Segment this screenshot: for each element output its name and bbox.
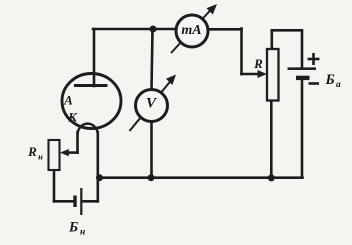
wire corner down to wiper <box>240 29 243 75</box>
junction node cathode bottom <box>96 174 103 181</box>
svg-text:н: н <box>38 152 43 162</box>
potentiometer R body <box>267 49 279 101</box>
svg-text:А: А <box>63 93 73 108</box>
wire wiper arrow line of Rn <box>68 151 78 154</box>
wire mA to corner <box>208 28 242 31</box>
junction node R bottom <box>268 174 275 181</box>
wire Bn right horizontal <box>83 200 98 203</box>
wire anode lead vertical <box>93 29 96 86</box>
wire R bottom lead <box>270 101 273 178</box>
milliammeter mA arrowhead <box>207 4 218 15</box>
wire battery Ba bottom lead <box>301 80 304 178</box>
svg-text:mA: mA <box>181 23 201 38</box>
vacuum tube anode plate bar <box>74 84 108 87</box>
voltmeter V body circle <box>136 90 168 122</box>
wire voltmeter branch upper <box>152 29 153 91</box>
vacuum tube envelope circle <box>62 74 121 129</box>
battery Bn positive long plate <box>80 188 82 215</box>
wire wiper arrow line of R <box>242 73 260 76</box>
svg-text:н: н <box>80 228 85 238</box>
milliammeter mA body circle <box>176 15 208 47</box>
wire connector R top to battery top <box>272 30 302 67</box>
battery Ba negative short plate <box>296 76 310 80</box>
rheostat Rn wiper arrowhead <box>60 149 69 156</box>
svg-text:R: R <box>27 144 37 159</box>
battery Ba positive long plate <box>288 67 317 70</box>
wire Bn left horizontal <box>54 200 74 203</box>
voltmeter V arrow shaft <box>130 81 172 132</box>
svg-text:R: R <box>253 56 263 71</box>
rheostat Rn body <box>49 140 60 170</box>
wire top horizontal to mA <box>93 28 177 31</box>
battery Bn negative short plate <box>73 196 76 208</box>
vacuum tube cathode heater arc <box>78 124 98 134</box>
svg-text:К: К <box>67 110 78 125</box>
svg-text:Б: Б <box>325 72 335 88</box>
junction node voltmeter bottom <box>148 174 155 181</box>
wire tube left heater leg <box>76 132 79 153</box>
potentiometer R wiper arrowhead <box>258 70 267 78</box>
wire bottom horizontal <box>99 176 303 179</box>
milliammeter mA arrow shaft <box>171 9 212 54</box>
svg-text:Б: Б <box>68 220 78 236</box>
wire Rn bottom lead <box>53 170 56 201</box>
voltmeter V arrowhead <box>166 75 176 86</box>
wire tube right heater leg down to Bn <box>97 132 100 201</box>
battery Ba plus sign <box>308 53 320 65</box>
svg-text:а: а <box>336 80 341 90</box>
battery Ba minus sign <box>309 82 320 85</box>
junction node top (V branch tap) <box>150 26 157 33</box>
wire voltmeter branch lower <box>150 122 153 178</box>
